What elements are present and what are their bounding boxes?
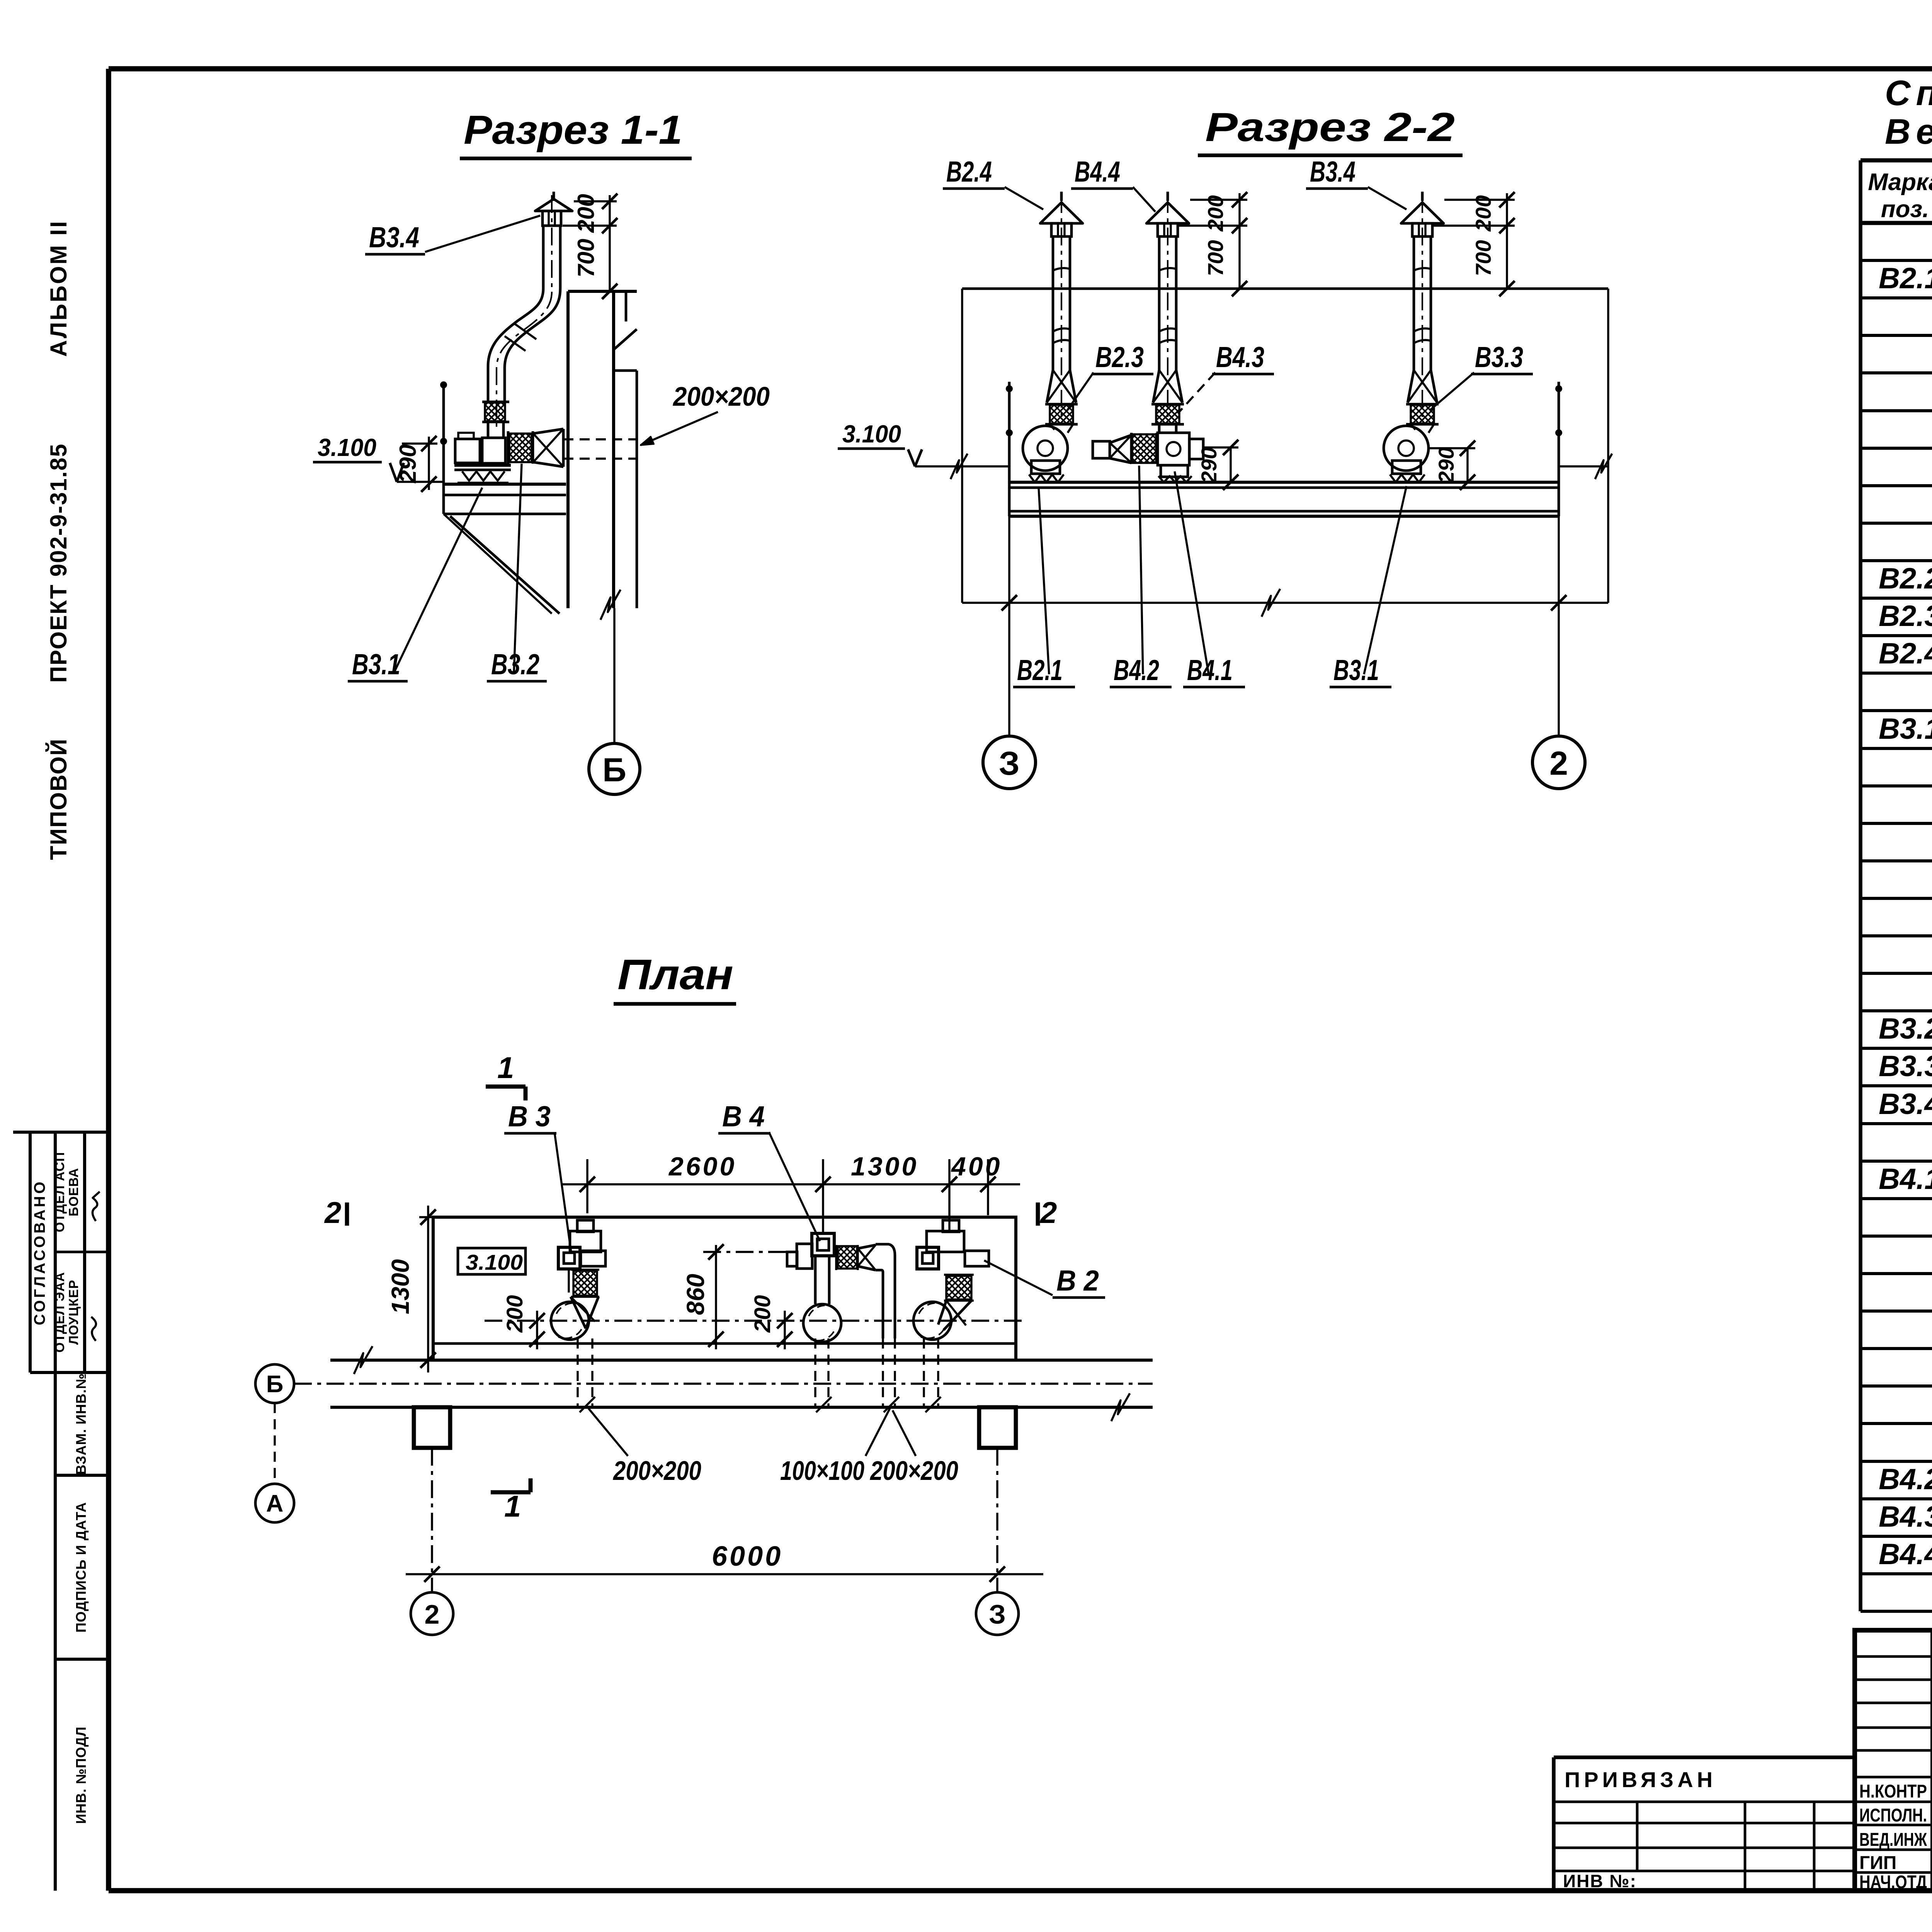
svg-text:План: План <box>617 951 733 998</box>
svg-text:В3.1: В3.1 <box>1879 713 1932 745</box>
svg-text:В2.1: В2.1 <box>1017 654 1063 686</box>
svg-text:Вентиляционных установок.: Вентиляционных установок. <box>1885 112 1932 151</box>
svg-text:200: 200 <box>1203 195 1228 231</box>
svg-text:В3.4: В3.4 <box>1310 155 1355 188</box>
svg-text:6000: 6000 <box>712 1541 783 1572</box>
svg-text:З: З <box>999 745 1020 782</box>
svg-text:В3.4: В3.4 <box>1879 1088 1932 1121</box>
svg-text:В4.4: В4.4 <box>1879 1538 1932 1571</box>
svg-text:200×200: 200×200 <box>672 381 770 412</box>
svg-text:В2.2: В2.2 <box>1879 562 1932 595</box>
svg-text:поз.: поз. <box>1881 196 1929 223</box>
svg-text:В2.3: В2.3 <box>1879 600 1932 633</box>
svg-text:3.100: 3.100 <box>842 420 901 448</box>
svg-text:ИНВ. №ПОДЛ: ИНВ. №ПОДЛ <box>73 1726 89 1824</box>
svg-text:100×100: 100×100 <box>780 1456 864 1486</box>
svg-text:В3.1: В3.1 <box>352 648 400 680</box>
svg-text:2: 2 <box>1039 1196 1057 1230</box>
svg-text:200: 200 <box>1471 195 1495 231</box>
svg-text:ПОДПИСЬ И ДАТА: ПОДПИСЬ И ДАТА <box>73 1502 89 1633</box>
svg-text:1: 1 <box>497 1051 514 1085</box>
svg-text:Н.КОНТР: Н.КОНТР <box>1859 1781 1927 1802</box>
svg-text:200: 200 <box>573 194 599 233</box>
svg-text:2: 2 <box>324 1196 341 1230</box>
svg-text:1300: 1300 <box>386 1259 414 1314</box>
svg-text:Б: Б <box>266 1371 284 1398</box>
svg-text:В4.4: В4.4 <box>1075 155 1120 188</box>
svg-text:3.100: 3.100 <box>318 434 376 461</box>
svg-text:В4.2: В4.2 <box>1879 1463 1932 1496</box>
svg-text:ВЗАМ. ИНВ.№: ВЗАМ. ИНВ.№ <box>73 1373 89 1475</box>
svg-text:В 2: В 2 <box>1056 1264 1099 1297</box>
svg-text:ИСПОЛН.: ИСПОЛН. <box>1859 1805 1927 1826</box>
svg-text:В 4: В 4 <box>722 1100 765 1133</box>
svg-text:2600: 2600 <box>668 1152 736 1181</box>
svg-text:СОГЛАСОВАНО: СОГЛАСОВАНО <box>31 1179 48 1325</box>
svg-text:АЛЬБОМ II: АЛЬБОМ II <box>46 219 71 357</box>
svg-text:290: 290 <box>1197 447 1221 483</box>
svg-text:ЛОУЦКЕР: ЛОУЦКЕР <box>66 1280 81 1345</box>
svg-text:290: 290 <box>1434 447 1458 483</box>
svg-text:2: 2 <box>1549 745 1568 782</box>
svg-text:В2.1: В2.1 <box>1879 262 1932 295</box>
svg-text:В4.1: В4.1 <box>1187 654 1233 686</box>
svg-text:ВЕД.ИНЖ: ВЕД.ИНЖ <box>1859 1830 1927 1850</box>
svg-text:В4.1: В4.1 <box>1879 1163 1932 1196</box>
svg-text:1300: 1300 <box>851 1152 918 1181</box>
svg-text:ОТДЕЛ АСП: ОТДЕЛ АСП <box>53 1152 67 1232</box>
svg-text:Б: Б <box>602 752 626 789</box>
svg-text:700: 700 <box>573 239 599 277</box>
svg-text:2: 2 <box>425 1599 440 1629</box>
svg-text:ТИПОВОЙ: ТИПОВОЙ <box>46 738 71 860</box>
svg-text:В3.4: В3.4 <box>369 221 419 253</box>
svg-text:ПРОЕКТ 902-9-31.85: ПРОЕКТ 902-9-31.85 <box>46 443 71 683</box>
svg-text:В2.4: В2.4 <box>1879 637 1932 670</box>
svg-text:В2.3: В2.3 <box>1095 341 1144 373</box>
svg-text:Разрез 2-2: Разрез 2-2 <box>1205 105 1455 150</box>
svg-text:700: 700 <box>1471 240 1495 276</box>
svg-text:Спецификация отопительно-: Спецификация отопительно- <box>1885 73 1932 113</box>
svg-text:860: 860 <box>682 1274 709 1315</box>
svg-text:В3.2: В3.2 <box>1879 1012 1932 1045</box>
svg-text:Марка: Марка <box>1868 169 1932 196</box>
svg-text:3.100: 3.100 <box>466 1250 523 1274</box>
svg-text:В 3: В 3 <box>508 1100 551 1133</box>
svg-text:200: 200 <box>750 1295 775 1333</box>
svg-text:ОТДЕЛ ЭАА: ОТДЕЛ ЭАА <box>53 1272 67 1353</box>
svg-text:ИНВ №:: ИНВ №: <box>1563 1871 1637 1891</box>
svg-text:200: 200 <box>502 1295 527 1333</box>
svg-text:В3.3: В3.3 <box>1879 1050 1932 1083</box>
svg-text:Разрез 1-1: Разрез 1-1 <box>464 107 682 153</box>
svg-text:700: 700 <box>1203 240 1228 276</box>
svg-text:З: З <box>989 1599 1006 1629</box>
svg-text:200×200: 200×200 <box>869 1456 958 1486</box>
svg-text:В3.1: В3.1 <box>1333 654 1379 686</box>
svg-text:ПРИВЯЗАН: ПРИВЯЗАН <box>1565 1767 1716 1792</box>
svg-text:В4.3: В4.3 <box>1879 1500 1932 1533</box>
svg-text:БОЕВА: БОЕВА <box>66 1168 81 1216</box>
svg-text:200×200: 200×200 <box>612 1456 701 1486</box>
svg-text:400: 400 <box>951 1152 1002 1181</box>
svg-text:В4.2: В4.2 <box>1114 654 1159 686</box>
svg-text:В3.3: В3.3 <box>1475 341 1523 373</box>
svg-text:290: 290 <box>395 444 421 483</box>
svg-text:В4.3: В4.3 <box>1216 341 1264 373</box>
svg-text:А: А <box>266 1490 284 1517</box>
svg-text:В2.4: В2.4 <box>946 155 992 188</box>
svg-text:ГИП: ГИП <box>1859 1853 1896 1873</box>
svg-text:НАЧ.ОТД: НАЧ.ОТД <box>1859 1872 1927 1893</box>
